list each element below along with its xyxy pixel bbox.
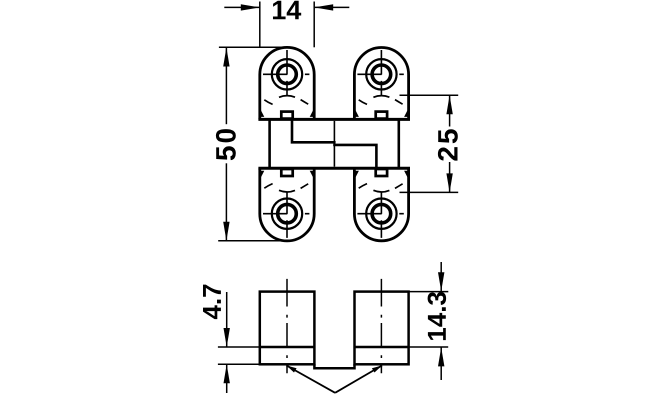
centerline cross lower-right [357, 192, 403, 238]
hinge body lower-left lobe [260, 168, 314, 241]
V leader arrowheads [287, 366, 383, 373]
right leaf step [333, 145, 376, 169]
hole lower-left inner circle [278, 204, 297, 223]
dimension 14 extension lines [260, 2, 314, 48]
right leaf outer edge [397, 119, 400, 168]
hinge body lower-right lobe [354, 168, 408, 241]
V leader lines [287, 366, 383, 393]
dashed arc lower-right lobe [359, 184, 403, 192]
dimension 14.3 label [428, 292, 447, 340]
dimension 14 label [273, 1, 301, 20]
dashed arc upper-right lobe [359, 96, 403, 105]
hinge body upper-right lobe [354, 47, 408, 119]
dimension 4.7 line and arrows [226, 292, 228, 393]
centerline cross upper-right [357, 50, 403, 96]
hole upper-right outer circle [366, 59, 396, 89]
dashed arc lower-left lobe [264, 184, 308, 192]
tab lower-right lobe [376, 169, 387, 176]
section plate line through flanges [260, 346, 409, 349]
dimension 14 lines and arrows [224, 6, 349, 8]
dimension 14.3 line and arrows [440, 262, 442, 380]
tab lower-left lobe [281, 169, 292, 176]
tab upper-left lobe [281, 112, 292, 119]
hole lower-right outer circle [366, 199, 396, 229]
left leaf step [292, 119, 336, 142]
hole upper-left outer circle [272, 59, 302, 89]
section view left flange [260, 292, 315, 365]
dimension 4.7 label [203, 285, 221, 320]
hole upper-left inner circle [278, 65, 297, 84]
dimension 50 line and arrows [225, 48, 227, 241]
center joint line [333, 121, 335, 167]
dimension 50 label [216, 129, 236, 160]
centerline cross lower-left [263, 192, 309, 238]
bottom rail (top edge of lower lobes) [258, 167, 410, 170]
corner arrow marks upper lobes [261, 110, 408, 117]
hinge body upper-left lobe [260, 47, 314, 119]
top rail (bottom edge of upper lobes) [258, 118, 410, 121]
dimension 25 extension lines [400, 95, 459, 192]
dashed arc upper-left lobe [264, 96, 308, 105]
hole lower-left outer circle [272, 199, 302, 229]
dimension 25 line and arrows [449, 96, 451, 192]
left leaf outer edge [268, 119, 271, 168]
dimension 50 extension lines [218, 47, 288, 241]
section channel walls and bottom [314, 364, 354, 368]
dimension 14.3 extension lines [409, 292, 449, 347]
dimension 4.7 extension lines [218, 347, 260, 364]
corner arrow marks lower lobes [261, 171, 408, 178]
section view right flange [355, 292, 409, 365]
dimension 25 label [438, 129, 458, 160]
section centerline right flange [380, 279, 382, 373]
hole lower-right inner circle [372, 204, 391, 223]
section centerline left flange [286, 279, 288, 373]
hole upper-right inner circle [372, 65, 391, 84]
centerline cross upper-left [263, 50, 309, 96]
tab upper-right lobe [376, 112, 387, 119]
